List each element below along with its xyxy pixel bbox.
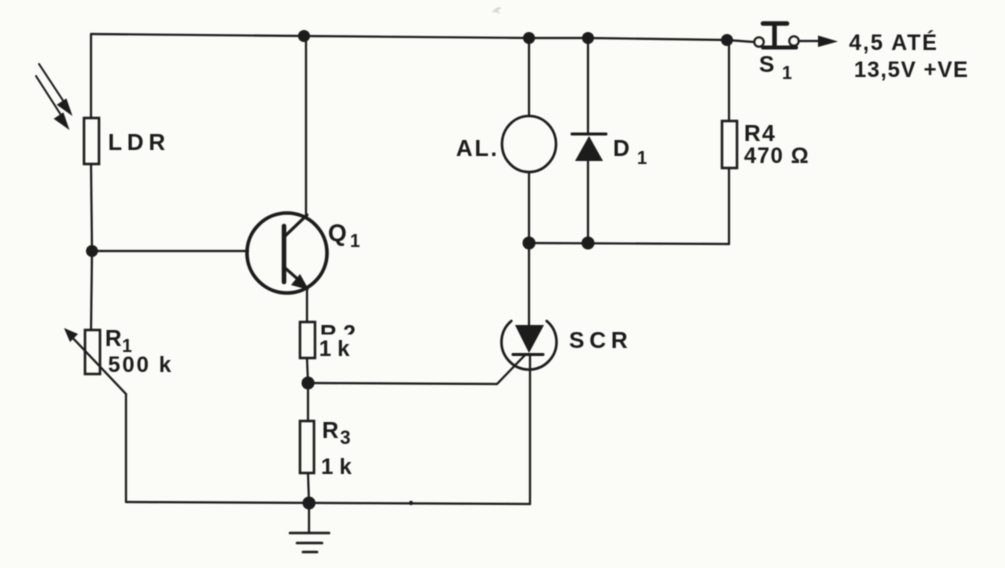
node small blot on bottom rail: [409, 501, 413, 505]
wire R3 to ground node: [308, 473, 309, 503]
wire to S1: [727, 40, 754, 42]
wire gate node to SCR gate: [308, 354, 526, 384]
node junction dot AL mid: [523, 237, 536, 250]
resistor R2 body: [300, 322, 315, 358]
transistor Q1 circle: [247, 213, 327, 293]
light arrow 2: [36, 76, 68, 128]
svg-text:1 k: 1 k: [321, 454, 352, 479]
svg-text:3: 3: [340, 428, 351, 449]
node junction dot ground node: [303, 497, 316, 510]
label R2 clipped fragment: [320, 320, 356, 346]
node junction dot top of R4/S1: [721, 34, 733, 46]
wire R1 wiper to bottom rail: [125, 394, 127, 502]
svg-text:1 k: 1 k: [319, 336, 350, 361]
svg-text:1: 1: [782, 63, 792, 83]
wire rail to D1: [587, 38, 589, 134]
wire bottom rail: [126, 502, 530, 504]
wire mid node to SCR anode: [528, 243, 530, 325]
diode D1 cathode bar: [572, 133, 606, 136]
stray smudge: [493, 8, 500, 13]
node junction dot base node: [86, 245, 98, 257]
svg-text:13,5V +VE: 13,5V +VE: [854, 57, 969, 82]
svg-text:S: S: [759, 51, 774, 77]
switch S1 pushbutton: [754, 24, 798, 48]
transistor Q1 collector stroke: [284, 215, 307, 237]
node junction dot top of D1: [582, 32, 594, 44]
svg-text:1: 1: [350, 231, 360, 251]
svg-text:D: D: [613, 135, 630, 161]
SCR cathode bar: [513, 353, 543, 356]
svg-text:4,5 ATÉ: 4,5 ATÉ: [849, 30, 938, 55]
diode D1 triangle: [575, 136, 603, 161]
wire left vertical from rail to LDR: [90, 34, 92, 118]
svg-text:500 k: 500 k: [108, 352, 173, 377]
node junction dot gate node: [302, 377, 315, 390]
wire base node to R1: [91, 251, 92, 330]
wire R4 to mid rail: [728, 168, 730, 244]
svg-text:LDR: LDR: [108, 129, 170, 155]
node junction dot D1 mid: [582, 237, 595, 250]
arrow +VE output: [818, 36, 838, 48]
wire base horizontal to Q1: [92, 250, 248, 252]
wire rail to AL lamp: [528, 38, 530, 116]
svg-text:R: R: [105, 325, 122, 351]
SCR circle: [501, 321, 556, 370]
potentiometer R1 wiper arrow: [64, 328, 126, 394]
lamp AL body: [502, 116, 556, 172]
wire SCR cathode vertical: [529, 355, 531, 504]
wire R2 to gate node: [307, 358, 308, 383]
wire mid rail: [529, 243, 729, 244]
wire rail to R4: [728, 40, 730, 121]
SCR triangle: [515, 325, 544, 353]
transistor Q1 emitter stroke with arrow: [284, 267, 309, 290]
potentiometer R1 body: [85, 330, 100, 374]
transistor Q1 base bar: [282, 226, 287, 282]
svg-text:470 Ω: 470 Ω: [744, 143, 809, 168]
svg-text:Q: Q: [328, 220, 347, 247]
resistor LDR body: [84, 118, 99, 164]
wire gate node to R3: [307, 383, 309, 421]
wire AL to mid node: [528, 172, 530, 243]
svg-text:SCR: SCR: [569, 327, 633, 353]
wire LDR to base node: [91, 164, 92, 251]
resistor R4 body: [722, 121, 737, 168]
svg-text:1: 1: [637, 148, 647, 168]
wire top rail: [91, 34, 727, 40]
resistor R3 body: [300, 421, 314, 473]
wire S1 to arrow: [799, 40, 820, 42]
node junction dot top of Q1 collector: [298, 30, 310, 42]
svg-text:AL.: AL.: [456, 135, 499, 161]
wire emitter to R2: [306, 288, 308, 322]
svg-text:R: R: [322, 417, 339, 443]
wire collector vertical: [305, 36, 307, 216]
wire D1 to mid node: [587, 160, 589, 243]
light arrow 1: [39, 64, 71, 114]
ground symbol: [290, 503, 329, 552]
node junction dot top of AL: [523, 32, 535, 44]
